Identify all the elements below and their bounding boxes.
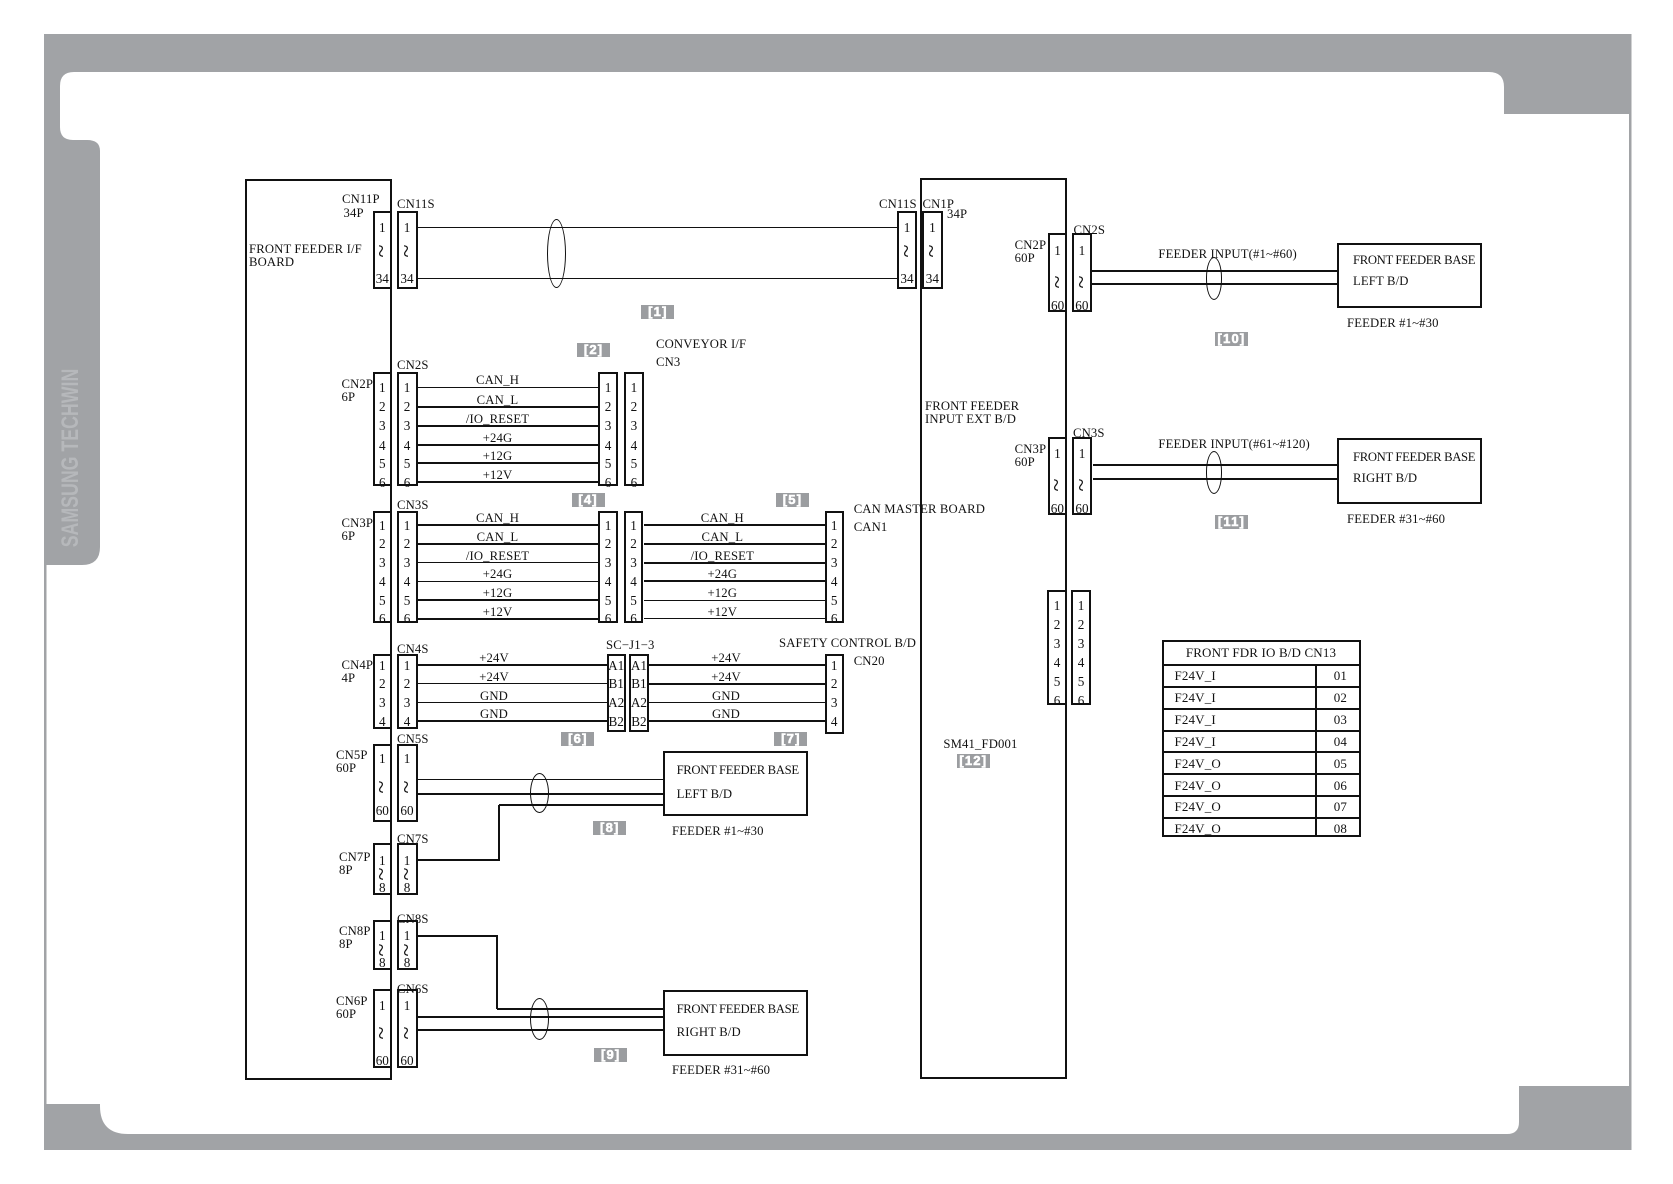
wire /IO_RESET CAN plug to CAN1 — [644, 562, 825, 564]
wire +24V SC-J1-3 to CN20 — [649, 683, 825, 685]
label CN11S — [397, 198, 435, 211]
pin 5 CN3P — [362, 594, 402, 607]
pin 1 CN7P — [362, 854, 402, 867]
connector CN2S (right board) — [1072, 233, 1093, 312]
pin 1 CN3S — [387, 519, 427, 532]
wire CAN_L CAN plug to CAN1 — [644, 543, 825, 545]
label CN8S — [397, 913, 429, 926]
connector CN20 (SAFETY CONTROL B/D) — [825, 654, 844, 734]
connector IO P (right board 6pin) — [1047, 590, 1066, 705]
pin 4 CN3P — [362, 575, 402, 588]
pin A2 SC plug A — [601, 696, 631, 709]
connector CN11S (right board) — [897, 211, 917, 289]
pins gap CN3P right — [1047, 475, 1067, 495]
pin 34 CN1P — [912, 272, 952, 285]
pin 60 CN3S right — [1062, 502, 1102, 515]
label CN2S right — [1074, 224, 1106, 237]
wire +24V SC-J1-3 to CN20 — [649, 664, 825, 666]
net label +24G — [458, 432, 538, 445]
net label +24V seg1 — [464, 671, 524, 684]
pin 34 CN11S right — [887, 272, 927, 285]
connector conveyor plug A — [598, 372, 617, 487]
pin 8 CN8S — [387, 956, 427, 969]
connector CN4S — [397, 654, 418, 729]
pin 5 CAN plug B — [614, 594, 654, 607]
pin 2 CN3S — [387, 537, 427, 550]
pin 2 conveyor plug A — [588, 400, 628, 413]
connector CN7P 8P — [373, 843, 393, 895]
pin 3 CN3S — [387, 556, 427, 569]
pin 1 CAN plug B — [614, 519, 654, 532]
connector CN11P 34P — [373, 211, 393, 289]
tag [12] — [957, 754, 990, 768]
label FEEDER #31-#60 (mid) — [672, 1064, 770, 1077]
label SC-J1-3 — [606, 639, 655, 652]
connector CN2P 60P (right board) — [1048, 233, 1068, 312]
pin 2 IO S — [1061, 618, 1101, 631]
pin 5 conveyor plug B — [614, 457, 654, 470]
connector conveyor plug B — [624, 372, 644, 487]
pin A1 SC plug B — [624, 659, 654, 672]
pin 6 CN2S — [387, 476, 427, 489]
pins gap CN11S — [397, 241, 417, 261]
connector SC-J1-3 plug A — [607, 654, 626, 732]
pin 5 CN2P — [362, 457, 402, 470]
label SM41_FD001 — [943, 738, 1017, 751]
pin 4 CAN plug A — [588, 575, 628, 588]
connector CN3P 60P (right board) — [1048, 437, 1067, 515]
cable feeder input 61-120 — [1206, 451, 1223, 494]
net label CAN_L seg1 — [458, 531, 538, 544]
pin 6 CAN plug B — [614, 612, 654, 625]
wire +24G CN3S to CAN plug — [418, 581, 599, 582]
pins gap CN7S — [397, 864, 417, 884]
wire feeder right riser from CN8S — [496, 936, 498, 1009]
wire +12V CN2S to CN3 conveyor — [418, 481, 599, 483]
pin 2 CN2P — [362, 400, 402, 413]
pin 60 CN3P right — [1037, 502, 1077, 515]
label CN3S right — [1073, 427, 1105, 440]
label 34P — [344, 207, 364, 220]
pin 4 CN4P — [362, 715, 402, 728]
net label /IO_RESET — [458, 413, 538, 426]
pin A1 SC plug A — [601, 659, 631, 672]
label CN4P 4P — [342, 659, 374, 685]
wire feeder left wire 1 — [418, 779, 663, 780]
pin 34 CN11S — [387, 272, 427, 285]
connector CN8S — [397, 920, 418, 970]
module FRONT FEEDER BASE RIGHT B/D (far) — [1337, 438, 1482, 504]
label RIGHT B/D (mid) — [677, 1026, 741, 1039]
label CN7P 8P — [339, 851, 371, 877]
pin 6 CN3P — [362, 612, 402, 625]
pin 1 CN2S — [387, 381, 427, 394]
net label +24V seg2 — [696, 671, 756, 684]
label FEEDER INPUT(#1-#60) — [1158, 248, 1297, 261]
connector CAN plug A — [598, 511, 618, 623]
pin 5 IO P — [1037, 675, 1077, 688]
wire +12G CN3S to CAN plug — [418, 599, 599, 601]
net label +12V seg1 — [458, 606, 538, 619]
pin 4 conveyor plug A — [588, 439, 628, 452]
label CAN1 — [854, 521, 888, 534]
connector CN8P 8P — [373, 920, 393, 970]
connector CN2S — [397, 372, 418, 487]
pin 8 CN7P — [362, 881, 402, 894]
pin 1 CN2P — [362, 381, 402, 394]
wire +12V CAN plug to CAN1 — [644, 618, 825, 619]
wire +12G CAN plug to CAN1 — [644, 600, 825, 601]
label CN11P — [342, 193, 380, 206]
net label /IO_RESET seg1 — [458, 550, 538, 563]
tag [7] — [774, 732, 807, 746]
wire CAN_H CAN plug to CAN1 — [644, 524, 825, 526]
label CN5S — [397, 733, 429, 746]
module FRONT FEEDER BASE LEFT B/D (mid) — [663, 751, 808, 816]
pins gap CN3S right — [1072, 475, 1092, 495]
pin 4 CN2S — [387, 439, 427, 452]
pin 1 CN8S — [387, 929, 427, 942]
pin 3 CN20 — [814, 696, 854, 709]
pin 6 CAN1 — [814, 612, 854, 625]
SAMSUNG TECHWIN vertical logo text — [61, 325, 81, 591]
pin 60 CN5P — [362, 804, 402, 817]
net label +24G seg1 — [458, 568, 538, 581]
pin 5 IO S — [1061, 675, 1101, 688]
pin 1 CN3S right — [1062, 447, 1102, 460]
label LEFT B/D (mid) — [677, 788, 733, 801]
pin 2 CN3P — [362, 537, 402, 550]
pin 1 CN2P right — [1038, 244, 1078, 257]
pin 4 IO S — [1061, 656, 1101, 669]
label FRONT FEEDER I/F BOARD — [249, 243, 362, 269]
net label +12G seg1 — [458, 587, 538, 600]
wire /IO_RESET CN3S to CAN plug — [418, 562, 599, 563]
pin 5 CAN1 — [814, 594, 854, 607]
tag [11] — [1215, 515, 1248, 529]
cable CN11 bundle — [547, 219, 566, 288]
net label CAN_L seg2 — [682, 531, 762, 544]
label CN3 — [656, 356, 680, 369]
net label GND seg2 — [696, 708, 756, 721]
wire +24V CN4S to SC-J1-3 — [418, 683, 607, 684]
pin 1 CN5S — [387, 752, 427, 765]
pin 6 CN2P — [362, 476, 402, 489]
connector CAN plug B — [624, 511, 644, 623]
pin 8 CN7S — [387, 881, 427, 894]
label CN6P 60P — [336, 995, 368, 1021]
pin 1 CN11S right — [887, 221, 927, 234]
net label CAN_H seg1 — [458, 512, 538, 525]
label CN3P 60P right — [1015, 443, 1047, 469]
connector CN6P 60P — [373, 989, 393, 1068]
pin 5 conveyor plug A — [588, 457, 628, 470]
pin 1 CAN1 — [814, 519, 854, 532]
label FRONT FEEDER BASE LEFT (mid) — [677, 764, 799, 777]
cable feeder-right bundle — [530, 998, 549, 1040]
connector SC-J1-3 plug B — [629, 654, 649, 732]
pin 2 IO P — [1037, 618, 1077, 631]
board FRONT FEEDER I/F BOARD — [245, 179, 392, 1080]
pin 4 CAN plug B — [614, 575, 654, 588]
wire feeder input wire 1 (CN2S) — [1092, 270, 1337, 272]
wire CAN_H CN2S to CN3 conveyor — [418, 387, 599, 388]
pin 1 CN1P — [912, 221, 952, 234]
label CAN MASTER BOARD — [854, 503, 985, 516]
label RIGHT B/D (far) — [1353, 472, 1417, 485]
wire feeder right wire 3 — [418, 1029, 663, 1031]
pin B1 SC plug A — [601, 677, 631, 690]
pin 2 CN20 — [814, 677, 854, 690]
label CN2P 6P — [342, 378, 374, 404]
label FEEDER #31-#60 (far) — [1347, 513, 1445, 526]
label CN3P 6P — [342, 517, 374, 543]
wire wire CN7S pin1 — [418, 859, 501, 861]
connector CN3S — [397, 511, 418, 623]
wire CN11 pin34 bus — [418, 278, 898, 279]
pin 1 CN2S right — [1062, 244, 1102, 257]
wire feeder input wire 1 (CN3S) — [1093, 464, 1338, 466]
wire wire CN8S pin1 — [418, 935, 498, 937]
net label CAN_H — [458, 374, 538, 387]
pin B1 SC plug B — [624, 677, 654, 690]
net label +12G seg2 — [682, 587, 762, 600]
pin 2 conveyor plug B — [614, 400, 654, 413]
pin 4 CN2P — [362, 439, 402, 452]
wire feeder right wire 1 — [497, 1008, 663, 1010]
pin 2 CN4P — [362, 677, 402, 690]
wire feeder left riser from CN7S — [498, 805, 500, 860]
wire feeder input wire 2 (CN2S) — [1092, 283, 1337, 285]
label CN5P 60P — [336, 749, 368, 775]
pin 1 CAN plug A — [588, 519, 628, 532]
wire +24V CN4S to SC-J1-3 — [418, 664, 607, 666]
pin 6 conveyor plug B — [614, 476, 654, 489]
pin 3 CN3P — [362, 556, 402, 569]
pin 6 CN3S — [387, 612, 427, 625]
pin 2 CAN plug B — [614, 537, 654, 550]
net label /IO_RESET seg2 — [682, 550, 762, 563]
pin A2 SC plug B — [624, 696, 654, 709]
pin 1 CN4S — [387, 659, 427, 672]
label SAFETY CONTROL B/D — [779, 637, 916, 650]
connector CN4P 4P — [373, 654, 393, 729]
pin B2 SC plug B — [624, 715, 654, 728]
pin 5 CN3S — [387, 594, 427, 607]
pin 3 CN4S — [387, 696, 427, 709]
pin 2 CAN plug A — [588, 537, 628, 550]
net label +24V seg1 — [464, 652, 524, 665]
pin 1 CN11P — [362, 221, 402, 234]
pins gap CN7P — [372, 864, 392, 884]
tag [10] — [1215, 332, 1248, 346]
wire +24G CAN plug to CAN1 — [644, 580, 825, 582]
connector CN1P 34P — [922, 211, 942, 289]
wire CN11 pin1 bus — [418, 227, 898, 228]
pins gap CN11S right — [897, 241, 917, 261]
tag [5] — [776, 493, 809, 507]
pin 60 CN6S — [387, 1054, 427, 1067]
label LEFT B/D (far) — [1353, 275, 1409, 288]
net label GND seg1 — [464, 708, 524, 721]
connector CN5S — [397, 744, 418, 822]
wire GND CN4S to SC-J1-3 — [418, 720, 607, 722]
wire +12V CN3S to CAN plug — [418, 618, 599, 620]
net label CAN_L — [458, 394, 538, 407]
connector IO S (right board 6pin) — [1071, 590, 1092, 705]
pin 6 IO P — [1037, 694, 1077, 707]
pin 1 IO S — [1061, 599, 1101, 612]
connector CN5P 60P — [373, 744, 393, 822]
module FRONT FEEDER BASE RIGHT B/D (mid) — [663, 990, 808, 1056]
wire GND SC-J1-3 to CN20 — [649, 702, 825, 703]
pins gap CN5P — [372, 777, 392, 797]
wire CAN_L CN3S to CAN plug — [418, 543, 599, 545]
pin 2 CAN1 — [814, 537, 854, 550]
pin 1 conveyor plug B — [614, 381, 654, 394]
wire feeder input wire 2 (CN3S) — [1093, 478, 1338, 480]
connector CN2P 6P — [373, 372, 393, 487]
pins gap CN2P right — [1048, 272, 1068, 292]
pin 8 CN8P — [362, 956, 402, 969]
pin 4 IO P — [1037, 656, 1077, 669]
wire CAN_H CN3S to CAN plug — [418, 524, 599, 526]
pin 3 CAN1 — [814, 556, 854, 569]
pin 3 CN2S — [387, 419, 427, 432]
pin 1 CN6S — [387, 999, 427, 1012]
pin 4 CN3S — [387, 575, 427, 588]
net label +24G seg2 — [682, 568, 762, 581]
label CN6S — [397, 983, 429, 996]
label 34P right — [947, 208, 967, 221]
label CN20 — [854, 655, 885, 668]
pins gap CN11P — [372, 241, 392, 261]
label CN1P — [923, 198, 955, 211]
connector CN3S (right board) — [1072, 437, 1093, 515]
board FRONT FEEDER INPUT EXT B/D — [920, 178, 1067, 1079]
cable feeder-left bundle — [530, 773, 549, 814]
pin 6 conveyor plug A — [588, 476, 628, 489]
tag [2] — [577, 343, 610, 357]
label FEEDER INPUT(#61-#120) — [1158, 438, 1309, 451]
pin 1 conveyor plug A — [588, 381, 628, 394]
pin 3 CN2P — [362, 419, 402, 432]
module FRONT FEEDER BASE LEFT B/D (far) — [1337, 243, 1482, 309]
pin 5 CAN plug A — [588, 594, 628, 607]
label FRONT FEEDER BASE RIGHT (mid) — [677, 1003, 799, 1016]
pin 1 CN20 — [814, 659, 854, 672]
pin 4 CN20 — [814, 715, 854, 728]
pin 2 CN4S — [387, 677, 427, 690]
pin 3 IO S — [1061, 637, 1101, 650]
label CN8P 8P — [339, 925, 371, 951]
pin 60 CN2S right — [1062, 299, 1102, 312]
label CN7S — [397, 833, 429, 846]
pin 1 CN7S — [387, 854, 427, 867]
wire GND SC-J1-3 to CN20 — [649, 720, 825, 722]
connector CN11S (left) — [397, 211, 418, 289]
pin 3 CAN plug A — [588, 556, 628, 569]
pins gap CN6P — [372, 1023, 392, 1043]
wire feeder left wire 2 — [418, 793, 663, 795]
label CN11S right — [879, 198, 917, 211]
wire /IO_RESET CN2S to CN3 conveyor — [418, 425, 599, 427]
table FRONT FDR IO B/D CN13 — [1162, 640, 1361, 837]
wire feeder right wire 2 — [418, 1016, 663, 1018]
pin 6 IO S — [1061, 694, 1101, 707]
tag [4] — [572, 493, 605, 507]
label CN3S — [397, 499, 429, 512]
pin 1 IO P — [1037, 599, 1077, 612]
net label +24V seg2 — [696, 652, 756, 665]
connector CN7S — [397, 843, 418, 895]
pins gap CN5S — [397, 777, 417, 797]
pins gap CN6S — [397, 1023, 417, 1043]
label CN2P 60P right — [1015, 239, 1047, 265]
pin 3 conveyor plug A — [588, 419, 628, 432]
pin 1 CN3P — [362, 519, 402, 532]
tag [8] — [593, 821, 626, 835]
pin 60 CN2P right — [1038, 299, 1078, 312]
pin 3 conveyor plug B — [614, 419, 654, 432]
pin 60 CN6P — [362, 1054, 402, 1067]
net label +12G — [458, 450, 538, 463]
cable feeder input 1-60 — [1206, 257, 1223, 300]
wire GND CN4S to SC-J1-3 — [418, 702, 607, 703]
label FRONT FEEDER BASE LEFT (far) — [1353, 254, 1475, 267]
net label +12V — [458, 469, 538, 482]
wire feeder left wire 3 — [499, 804, 662, 806]
tag [1] — [641, 305, 674, 319]
net label GND seg2 — [696, 690, 756, 703]
wire +12G CN2S to CN3 conveyor — [418, 462, 599, 464]
pin 1 CN8P — [362, 929, 402, 942]
pin 6 CAN plug A — [588, 612, 628, 625]
pins gap CN8P — [372, 940, 392, 960]
pin 4 conveyor plug B — [614, 439, 654, 452]
pins gap CN1P — [922, 241, 942, 261]
pin 1 CN11S — [387, 221, 427, 234]
wire CAN_L CN2S to CN3 conveyor — [418, 406, 599, 408]
pin 4 CN4S — [387, 715, 427, 728]
label CN2S — [397, 359, 429, 372]
pin 3 CAN plug B — [614, 556, 654, 569]
net label CAN_H seg2 — [682, 512, 762, 525]
tag [6] — [561, 732, 594, 746]
pin 4 CAN1 — [814, 575, 854, 588]
label FRONT FEEDER BASE RIGHT (far) — [1353, 451, 1475, 464]
label FEEDER #1-#30 (mid) — [672, 825, 764, 838]
net label +12V seg2 — [682, 606, 762, 619]
pin B2 SC plug A — [601, 715, 631, 728]
label FRONT FEEDER INPUT EXT B/D — [925, 400, 1019, 426]
pin 1 CN3P right — [1037, 447, 1077, 460]
pin 3 IO P — [1037, 637, 1077, 650]
label CONVEYOR I/F — [656, 338, 746, 351]
pin 1 CN5P — [362, 752, 402, 765]
pin 2 CN2S — [387, 400, 427, 413]
connector CN6S — [397, 989, 418, 1068]
connector CN3P 6P — [373, 511, 393, 623]
pin 3 CN4P — [362, 696, 402, 709]
pin 5 CN2S — [387, 457, 427, 470]
pins gap CN8S — [397, 940, 417, 960]
wire +24G CN2S to CN3 conveyor — [418, 444, 599, 446]
pin 60 CN5S — [387, 804, 427, 817]
tag [9] — [594, 1048, 627, 1062]
pins gap CN2S right — [1072, 272, 1092, 292]
pin 1 CN6P — [362, 999, 402, 1012]
